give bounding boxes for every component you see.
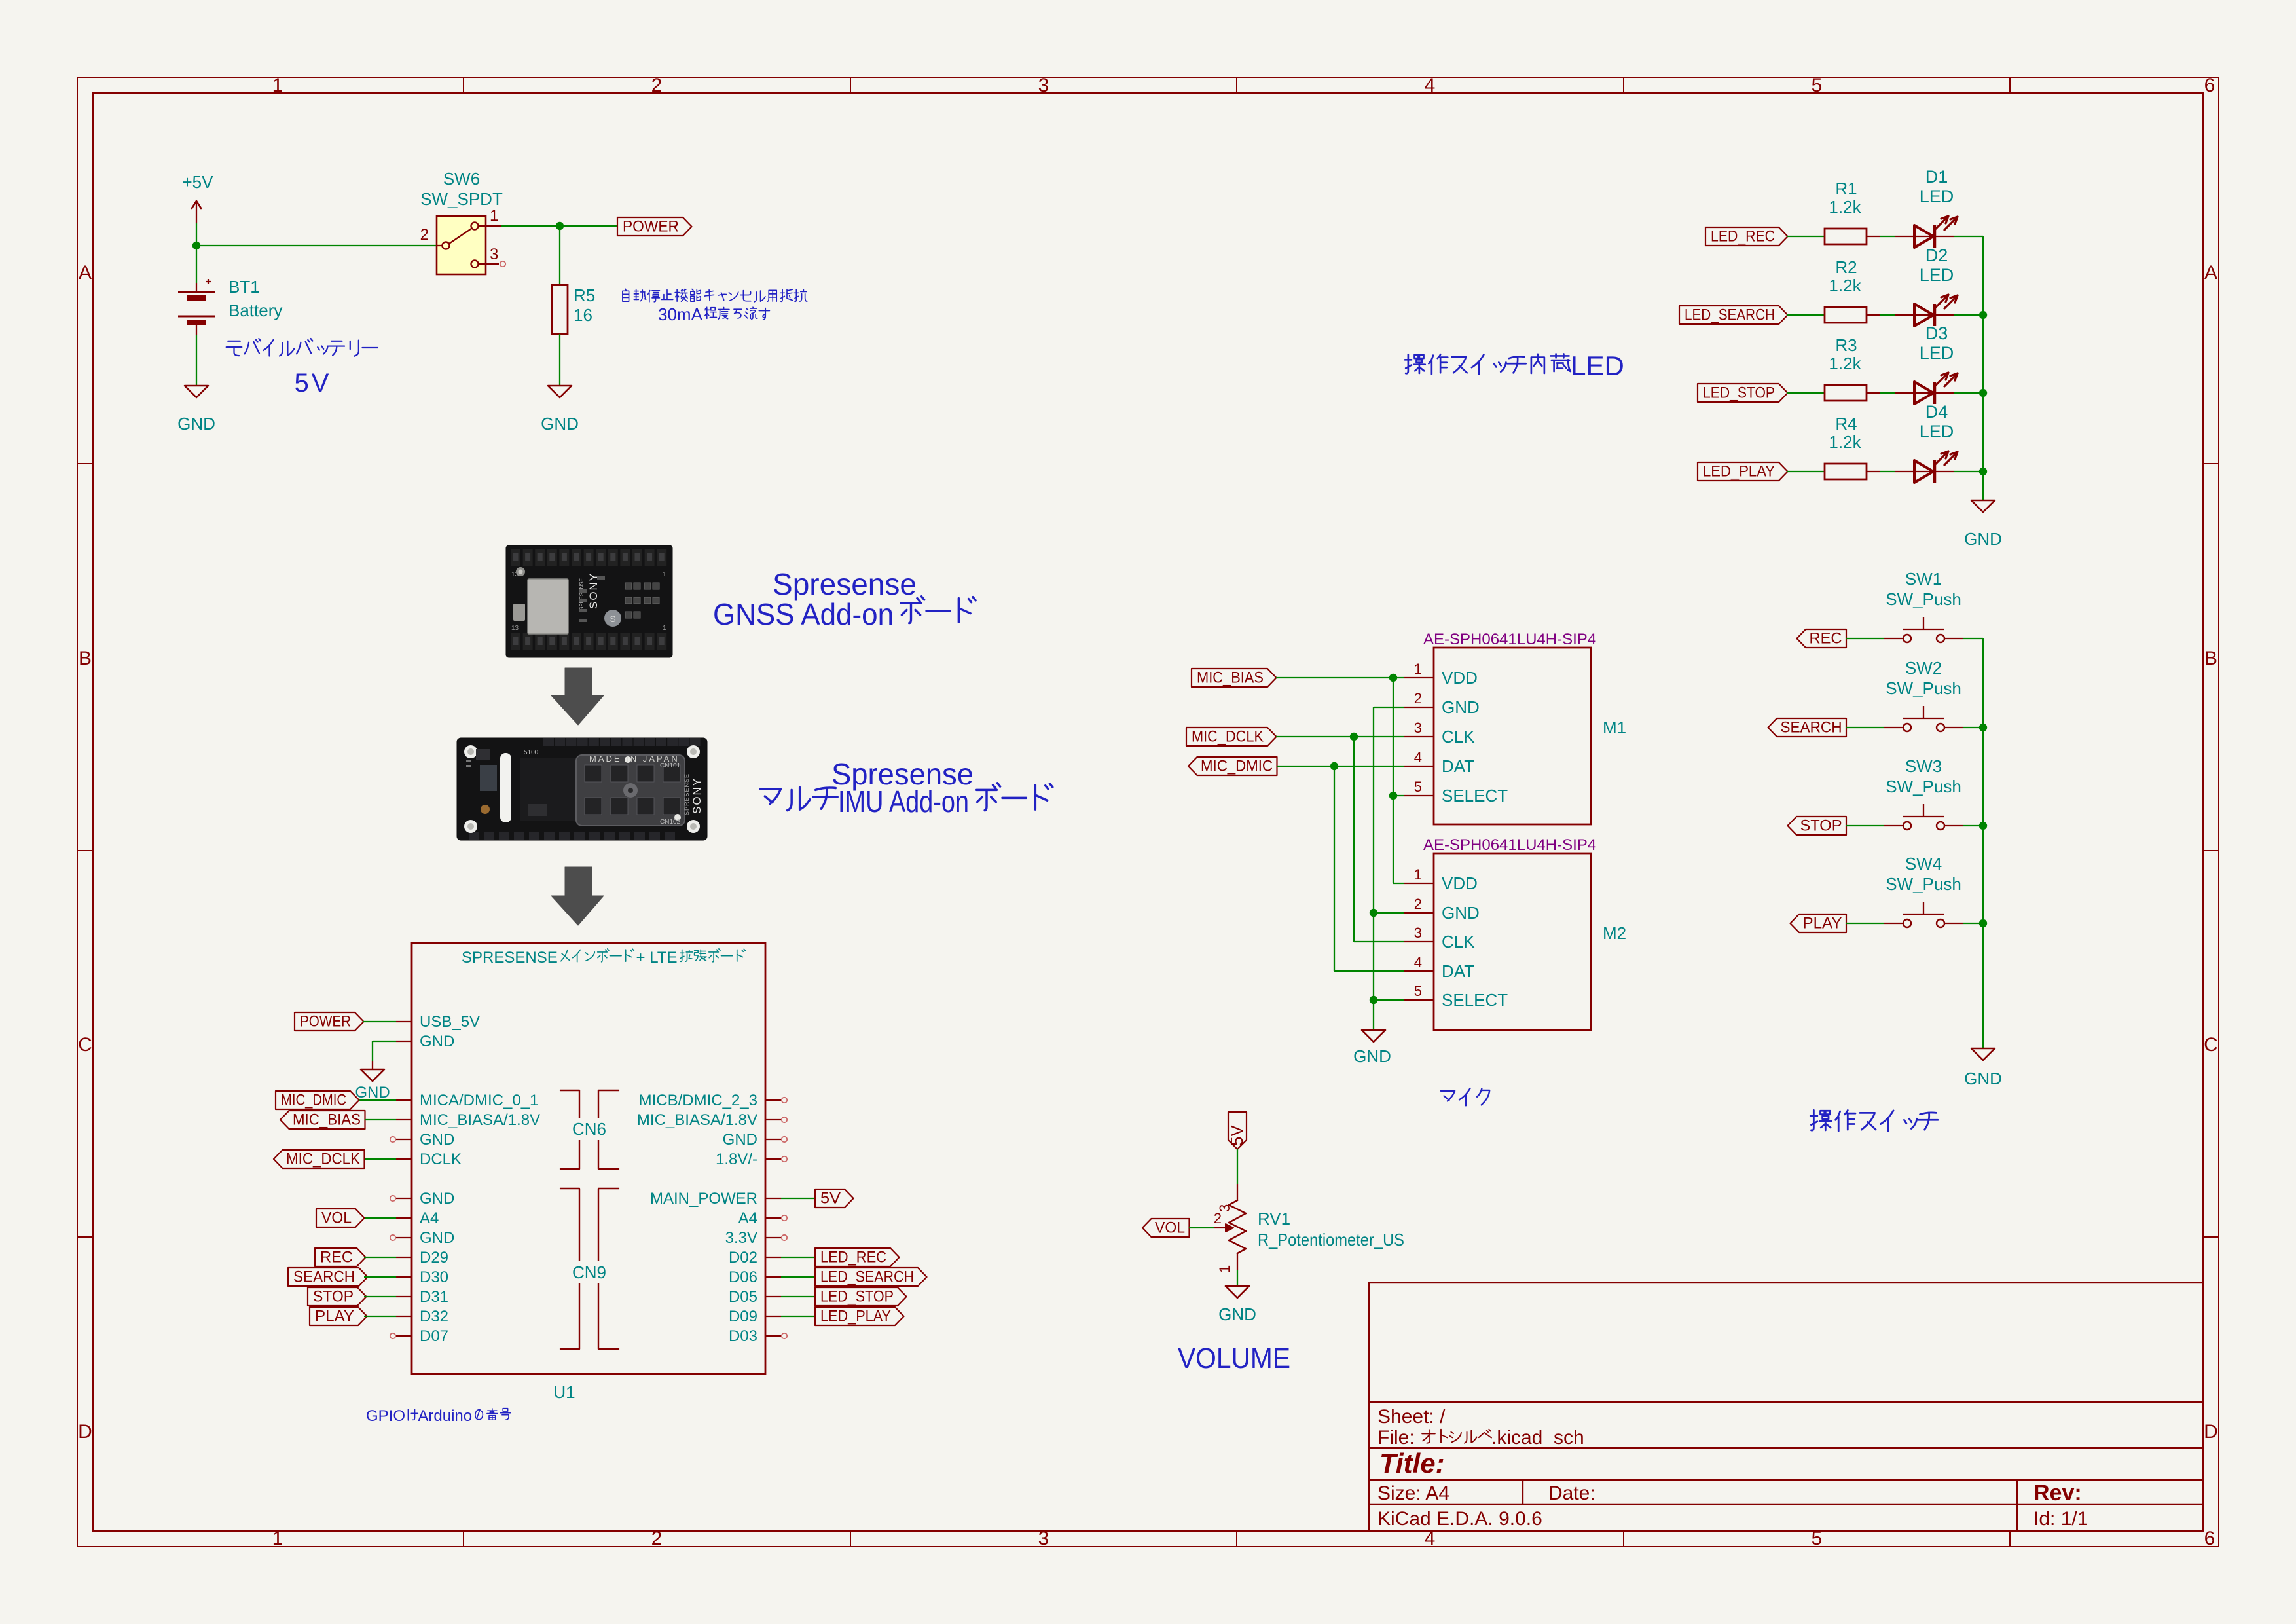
svg-text:A4: A4 [738,1209,757,1227]
svg-text:USB_5V: USB_5V [420,1013,480,1031]
svg-text:CLK: CLK [1442,727,1475,747]
svg-text:LED: LED [1920,187,1954,206]
svg-text:13: 13 [511,571,519,578]
svg-text:3: 3 [1038,75,1049,96]
svg-text:4: 4 [1414,749,1422,766]
svg-text:SPRESENSE: SPRESENSE [579,578,585,610]
svg-text:Rev:: Rev: [2033,1481,2082,1505]
svg-text:VOL: VOL [1155,1219,1185,1237]
svg-text:.kicad_sch: .kicad_sch [1491,1427,1584,1449]
svg-text:Title:: Title: [1379,1448,1445,1479]
svg-text:+5V: +5V [183,172,214,192]
svg-text:M1: M1 [1603,718,1626,737]
svg-text:1: 1 [272,1528,283,1549]
svg-text:BT1: BT1 [228,277,260,297]
svg-text:RV1: RV1 [1258,1209,1290,1228]
svg-text:POWER: POWER [300,1013,351,1031]
svg-text:2: 2 [651,75,663,96]
svg-text:+ LTE: + LTE [632,949,678,967]
svg-text:1.2k: 1.2k [1829,432,1861,452]
svg-text:LED_STOP: LED_STOP [820,1288,894,1306]
svg-text:R1: R1 [1835,179,1857,198]
svg-text:D1: D1 [1925,167,1948,187]
svg-text:D09: D09 [729,1308,757,1325]
svg-text:STOP: STOP [1800,817,1842,835]
svg-text:D05: D05 [729,1288,757,1306]
svg-text:D06: D06 [729,1268,757,1286]
svg-text:3.3V: 3.3V [725,1229,757,1247]
svg-text:2: 2 [1414,896,1422,912]
svg-text:STOP: STOP [313,1288,354,1306]
svg-text:MIC_BIASA/1.8V: MIC_BIASA/1.8V [637,1111,757,1129]
svg-text:16: 16 [574,305,592,325]
svg-text:5V: 5V [295,369,332,397]
svg-text:1: 1 [272,75,283,96]
svg-text:30mA: 30mA [658,304,703,324]
svg-text:13: 13 [511,625,519,632]
svg-text:B: B [2204,648,2217,669]
svg-text:PLAY: PLAY [315,1308,354,1325]
svg-text:LED: LED [1920,343,1954,363]
svg-text:2: 2 [420,226,429,244]
svg-text:R5: R5 [574,286,595,305]
svg-text:Date:: Date: [1548,1483,1595,1504]
svg-text:C: C [78,1034,92,1056]
svg-text:D07: D07 [420,1327,448,1345]
svg-text:D30: D30 [420,1268,448,1286]
svg-text:3: 3 [1414,720,1422,736]
svg-text:MICA/DMIC_0_1: MICA/DMIC_0_1 [420,1092,538,1109]
svg-text:PLAY: PLAY [1803,915,1842,932]
svg-text:D: D [78,1421,92,1443]
svg-text:1: 1 [1414,866,1422,883]
svg-text:5V: 5V [1227,1125,1247,1146]
svg-text:GPIO: GPIO [366,1407,405,1425]
svg-text:AE-SPH0641LU4H-SIP4: AE-SPH0641LU4H-SIP4 [1423,836,1596,854]
svg-text:SPRESENSE: SPRESENSE [683,773,690,815]
svg-text:1.8V/-: 1.8V/- [716,1151,757,1168]
svg-text:DAT: DAT [1442,961,1474,981]
svg-text:A4: A4 [420,1209,439,1227]
svg-text:D: D [2204,1421,2218,1443]
svg-text:GND: GND [420,1131,454,1149]
svg-text:D32: D32 [420,1308,448,1325]
svg-text:3: 3 [1038,1528,1049,1549]
svg-text:DAT: DAT [1442,756,1474,776]
svg-text:5: 5 [1812,75,1823,96]
svg-text:GND: GND [541,414,579,434]
svg-text:2: 2 [1414,690,1422,707]
svg-text:LED: LED [1571,350,1624,381]
svg-text:MIC_BIAS: MIC_BIAS [1197,669,1264,687]
svg-text:R_Potentiometer_US: R_Potentiometer_US [1258,1230,1404,1249]
svg-text:SELECT: SELECT [1442,990,1508,1010]
svg-text:LED_SEARCH: LED_SEARCH [1685,306,1775,324]
svg-text:REC: REC [1810,630,1842,648]
svg-text:LED_PLAY: LED_PLAY [1703,463,1775,481]
svg-text:GND: GND [723,1131,757,1149]
svg-text:VDD: VDD [1442,874,1478,893]
svg-text:SEARCH: SEARCH [293,1268,355,1286]
svg-text:Battery: Battery [228,301,282,320]
svg-text:6: 6 [2204,1528,2215,1549]
svg-text:CN101: CN101 [660,762,681,769]
svg-text:GND: GND [355,1084,390,1101]
svg-text:SW1: SW1 [1905,569,1942,589]
svg-text:3: 3 [1414,925,1422,941]
svg-text:1: 1 [1414,661,1422,677]
svg-text:D29: D29 [420,1249,448,1266]
svg-text:MICB/DMIC_2_3: MICB/DMIC_2_3 [639,1092,757,1109]
svg-text:AE-SPH0641LU4H-SIP4: AE-SPH0641LU4H-SIP4 [1423,631,1596,648]
svg-text:SELECT: SELECT [1442,786,1508,805]
svg-text:D02: D02 [729,1249,757,1266]
svg-text:2: 2 [1214,1210,1222,1227]
svg-text:DCLK: DCLK [420,1151,462,1168]
svg-text:MIC_BIASA/1.8V: MIC_BIASA/1.8V [420,1111,540,1129]
svg-text:GND: GND [1218,1304,1256,1324]
svg-text:GND: GND [420,1033,454,1050]
svg-text:SW2: SW2 [1905,658,1942,678]
svg-text:SW4: SW4 [1905,854,1942,874]
svg-text:Size: A4: Size: A4 [1377,1483,1449,1504]
svg-text:6: 6 [2204,75,2215,96]
svg-text:GND: GND [420,1229,454,1247]
svg-text:IMU Add-on: IMU Add-on [838,784,969,819]
svg-text:LED_REC: LED_REC [1711,228,1775,246]
svg-text:SW_Push: SW_Push [1886,777,1961,796]
svg-text:D03: D03 [729,1327,757,1345]
svg-text:GND: GND [420,1190,454,1208]
svg-text:1.2k: 1.2k [1829,276,1861,295]
svg-text:GND: GND [177,414,215,434]
svg-text:SW_SPDT: SW_SPDT [420,189,503,209]
svg-text:1: 1 [663,571,666,578]
svg-text:GND: GND [1964,529,2002,549]
svg-text:CN102: CN102 [660,819,681,826]
svg-text:5V: 5V [820,1190,841,1208]
svg-text:MIC_DCLK: MIC_DCLK [1192,728,1264,746]
svg-text:CLK: CLK [1442,932,1475,951]
svg-text:Id: 1/1: Id: 1/1 [2033,1508,2088,1530]
svg-text:5100: 5100 [524,749,539,756]
svg-text:VOLUME: VOLUME [1178,1342,1290,1375]
svg-text:GNSS Add-on: GNSS Add-on [713,597,894,631]
svg-text:GND: GND [1442,697,1480,717]
svg-text:SONY: SONY [691,777,703,814]
svg-text:SW_Push: SW_Push [1886,589,1961,609]
svg-text:D31: D31 [420,1288,448,1306]
svg-text:1.2k: 1.2k [1829,354,1861,373]
svg-text:D2: D2 [1925,246,1948,265]
svg-text:SW3: SW3 [1905,756,1942,776]
svg-text:5: 5 [1414,983,1422,999]
svg-text:File:: File: [1377,1427,1420,1449]
svg-text:GND: GND [1442,903,1480,923]
svg-text:1: 1 [1216,1265,1233,1273]
svg-text:B: B [79,648,92,669]
svg-text:R2: R2 [1835,257,1857,277]
svg-text:GND: GND [1964,1069,2002,1088]
svg-text:SEARCH: SEARCH [1781,719,1842,737]
svg-text:4: 4 [1425,75,1436,96]
svg-text:SW_Push: SW_Push [1886,678,1961,698]
svg-text:A: A [2204,262,2217,284]
svg-text:MAIN_POWER: MAIN_POWER [650,1190,757,1208]
svg-text:C: C [2204,1034,2218,1056]
svg-text:Arduino: Arduino [418,1407,472,1425]
svg-text:LED_SEARCH: LED_SEARCH [820,1268,914,1286]
svg-text:LED: LED [1920,265,1954,285]
svg-text:CN6: CN6 [572,1119,606,1139]
svg-text:LED_REC: LED_REC [820,1249,886,1266]
svg-text:CN9: CN9 [572,1263,606,1282]
svg-text:3: 3 [490,246,498,263]
svg-text:Spresense: Spresense [773,567,917,601]
svg-text:MIC_DMIC: MIC_DMIC [281,1092,346,1109]
svg-text:SPRESENSE: SPRESENSE [462,949,558,967]
svg-text:LED: LED [1920,422,1954,441]
svg-text:REC: REC [320,1249,353,1266]
svg-text:1.2k: 1.2k [1829,197,1861,217]
svg-text:MIC_BIAS: MIC_BIAS [293,1111,361,1129]
svg-text:POWER: POWER [623,218,679,236]
svg-text:VOL: VOL [321,1209,352,1227]
svg-text:KiCad E.D.A. 9.0.6: KiCad E.D.A. 9.0.6 [1377,1508,1542,1530]
svg-text:R3: R3 [1835,335,1857,355]
svg-text:D4: D4 [1925,402,1948,422]
svg-text:Sheet: /: Sheet: / [1377,1406,1446,1428]
svg-text:LED_STOP: LED_STOP [1703,384,1775,402]
svg-text:U1: U1 [553,1382,575,1402]
svg-text:S: S [610,614,615,624]
svg-text:MIC_DMIC: MIC_DMIC [1201,758,1273,775]
svg-text:LED_PLAY: LED_PLAY [820,1308,891,1325]
svg-text:2: 2 [651,1528,663,1549]
svg-text:D3: D3 [1925,323,1948,343]
svg-text:A: A [79,262,92,284]
svg-text:SW_Push: SW_Push [1886,874,1961,894]
svg-text:5: 5 [1414,779,1422,795]
svg-text:R4: R4 [1835,414,1857,434]
svg-text:M2: M2 [1603,923,1626,943]
svg-text:GND: GND [1353,1046,1391,1066]
svg-text:1: 1 [490,207,498,225]
svg-text:VDD: VDD [1442,668,1478,688]
svg-text:4: 4 [1414,954,1422,970]
svg-text:1: 1 [663,625,666,632]
svg-text:MIC_DCLK: MIC_DCLK [286,1151,360,1168]
svg-text:SW6: SW6 [443,169,480,189]
